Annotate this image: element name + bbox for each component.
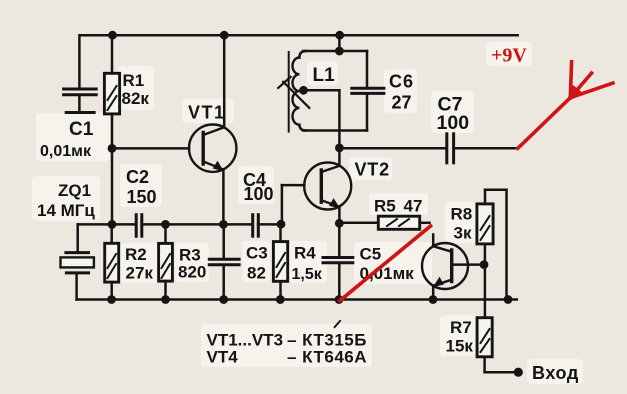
node bus 4 (277, 220, 286, 229)
node VT2 collector / C7 (335, 144, 344, 153)
label L1 (313, 65, 336, 86)
svg-text:L1: L1 (313, 65, 336, 86)
svg-text:27: 27 (392, 93, 412, 113)
wire mid bus (78, 223, 282, 226)
svg-text:15к: 15к (446, 337, 474, 356)
svg-text:R7: R7 (450, 318, 472, 337)
label R3 value (178, 246, 206, 282)
label VT1 (188, 103, 226, 123)
label R2 value (125, 245, 153, 283)
wire VT1 base (112, 147, 189, 150)
label C1 value (40, 119, 94, 160)
label C4 value (243, 170, 274, 204)
node VT1 base (108, 144, 117, 153)
resistor R4 (273, 224, 287, 299)
label R5 value (374, 197, 422, 216)
wire VT2 emitter down (338, 207, 341, 224)
node VT4 emitter (429, 295, 438, 304)
svg-text:14 МГц: 14 МГц (37, 201, 95, 220)
svg-text:+9V: +9V (491, 45, 527, 67)
label C3 value (246, 244, 268, 283)
svg-text:R5: R5 (374, 197, 396, 216)
capacitor C3 (209, 224, 239, 299)
crystal ZQ1 (61, 224, 94, 299)
transistor VT4 (422, 235, 484, 300)
label +9V (491, 45, 527, 67)
node bus 1 (108, 220, 117, 229)
resistor R3 (159, 224, 173, 299)
label C2 value (126, 167, 157, 207)
svg-text:– КТ646А: – КТ646А (287, 348, 367, 367)
svg-text:C3: C3 (246, 244, 268, 263)
capacitor C6 (352, 51, 384, 131)
capacitor C1 (64, 35, 97, 112)
node tank top (335, 47, 344, 56)
node C3 bottom (219, 295, 228, 304)
node bus 2 (161, 220, 170, 229)
svg-text:VT4: VT4 (207, 348, 239, 367)
node R8 rail (504, 295, 513, 304)
node C5 bottom (335, 295, 344, 304)
svg-text:ZQ1: ZQ1 (58, 181, 91, 200)
wire VT2 collector up to tank tap (338, 90, 341, 166)
svg-text:C5: C5 (360, 244, 382, 263)
label transistor types (207, 331, 368, 367)
antenna (red) (518, 62, 613, 149)
svg-text:1,5к: 1,5к (292, 266, 323, 283)
transistor VT2 (304, 163, 351, 210)
node R1 top (108, 31, 117, 40)
resistor R5 (339, 216, 429, 229)
wire bottom rail (77, 298, 517, 301)
svg-text:820: 820 (178, 263, 206, 282)
svg-text:0,01мк: 0,01мк (360, 264, 415, 283)
capacitor C2 (136, 215, 142, 237)
label R8 value (451, 205, 473, 243)
red correction line over R5 (340, 226, 431, 301)
node VT2 emitter (335, 219, 344, 228)
svg-text:R1: R1 (123, 71, 145, 90)
capacitor C7 (339, 134, 517, 163)
svg-text:R4: R4 (294, 244, 316, 263)
svg-text:VT1: VT1 (188, 103, 226, 123)
label C7 value (437, 94, 470, 135)
node R4 bottom (276, 295, 285, 304)
label R7 value (446, 318, 474, 356)
label R1 value (122, 71, 150, 108)
svg-text:C6: C6 (389, 72, 414, 92)
resistor R7 (477, 265, 518, 373)
node tank top rail (335, 31, 344, 40)
label ZQ1 value (37, 181, 95, 220)
node VT1 collector rail (220, 31, 229, 40)
wire R1 bottom to bus (111, 148, 114, 224)
node R3 bottom (161, 295, 170, 304)
label C5 value (360, 244, 415, 283)
svg-text:100: 100 (244, 184, 274, 204)
node R2 bottom (107, 295, 116, 304)
svg-text:150: 150 (127, 187, 157, 207)
resistor R2 (105, 224, 119, 299)
svg-text:C1: C1 (69, 119, 94, 140)
label Vhod (532, 363, 579, 383)
svg-text:R2: R2 (125, 245, 147, 264)
svg-text:C2: C2 (126, 167, 149, 187)
node input terminal (514, 368, 523, 377)
svg-text:47: 47 (404, 197, 423, 216)
svg-text:27к: 27к (126, 264, 154, 283)
L1 adjust arrow (278, 77, 309, 108)
inductor L1 tank (289, 35, 367, 131)
resistor R8 (477, 190, 507, 300)
node L1 tap (299, 86, 308, 95)
accent mark (335, 321, 340, 327)
svg-text:100: 100 (437, 112, 470, 134)
capacitor C5 (323, 223, 353, 299)
svg-text:82: 82 (247, 264, 266, 283)
label R4 value (292, 244, 323, 283)
node VT4 base (480, 260, 489, 269)
label C6 value (389, 72, 414, 113)
resistor R1 (104, 35, 119, 148)
node bus 3 (219, 220, 228, 229)
label VT2 (355, 160, 390, 180)
svg-text:3к: 3к (454, 224, 472, 243)
svg-text:R8: R8 (451, 205, 473, 224)
svg-text:82к: 82к (122, 89, 150, 108)
transistor VT1 (189, 35, 236, 224)
svg-text:VT2: VT2 (355, 160, 390, 180)
wire VT2 base from bus (282, 185, 305, 224)
svg-text:0,01мк: 0,01мк (40, 143, 92, 160)
wire top +9V rail (80, 34, 518, 37)
capacitor C4 (253, 215, 259, 237)
wire L1 tap to VT2 collector (304, 89, 340, 92)
svg-text:Вход: Вход (532, 363, 579, 383)
